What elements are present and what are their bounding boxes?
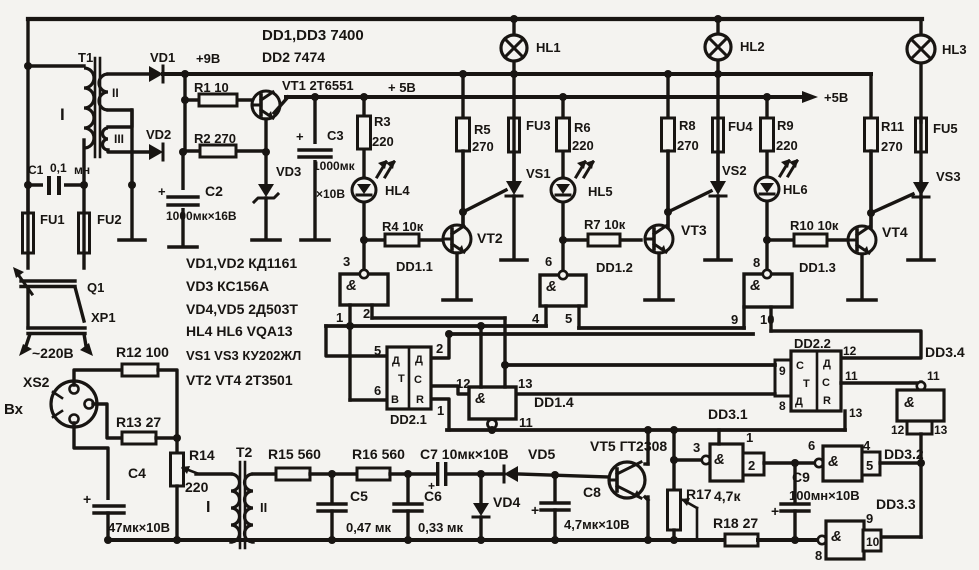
wire DD2.1 pin5 loop <box>326 326 387 358</box>
flip-flop DD2.1 <box>387 347 431 427</box>
wire VT4 emitter <box>860 254 863 299</box>
svg-text:С: С <box>822 377 830 389</box>
resistor R12 100 <box>116 344 169 376</box>
svg-text:I: I <box>60 105 65 124</box>
svg-text:FU1: FU1 <box>40 212 65 227</box>
wire DD3.4 down rail <box>919 434 922 537</box>
transistor VT4 <box>848 224 908 254</box>
svg-text:C8: C8 <box>583 484 601 500</box>
svg-text:12: 12 <box>891 423 905 437</box>
svg-text:1000мк×16В: 1000мк×16В <box>166 209 237 223</box>
wire bottom common rail <box>108 538 725 542</box>
node junction VT2 collector <box>459 208 467 216</box>
resistor R2 270 <box>185 131 266 157</box>
svg-text:10: 10 <box>866 535 880 549</box>
node junction right rail DD3.2 out <box>917 459 925 467</box>
svg-text:+: + <box>158 184 166 199</box>
resistor R10 10k <box>767 218 846 246</box>
transistor VT3 <box>645 222 707 253</box>
wire line D <box>505 363 775 367</box>
svg-text:8: 8 <box>815 548 822 563</box>
svg-text:+: + <box>531 502 539 518</box>
wire left mains rail <box>26 19 29 212</box>
transformer T1 core <box>95 58 100 157</box>
node junction rail VT5 <box>644 536 652 544</box>
node junction +9V / R1R2 riser <box>181 70 189 78</box>
flip-flop DD2.2 <box>775 336 841 413</box>
svg-text:8: 8 <box>753 255 760 270</box>
svg-text:270: 270 <box>472 139 494 154</box>
svg-text:HL4 HL6 VQА13: HL4 HL6 VQА13 <box>186 323 293 339</box>
diode VD1 <box>149 50 220 82</box>
wire T2 primary top <box>0 0 1 1</box>
wire DD3.2 out <box>880 461 921 464</box>
svg-text:&: & <box>475 390 486 407</box>
svg-text:FU4: FU4 <box>728 119 753 134</box>
wire DD1.3 pin10 stub <box>760 307 774 331</box>
op-gate DD3.3 <box>815 496 916 563</box>
wire VT5 emitter <box>645 497 648 540</box>
svg-text:+9В: +9В <box>196 51 220 66</box>
svg-text:6: 6 <box>545 254 552 269</box>
svg-text:&: & <box>831 528 842 545</box>
svg-text:R1 10: R1 10 <box>194 80 229 95</box>
node junction VT1 collector / R2 / VD3 <box>262 148 270 156</box>
node junction lineF DD1.4 out <box>488 426 496 434</box>
svg-text:VT2 VT4 2Т3501: VT2 VT4 2Т3501 <box>186 372 293 388</box>
label ~220V <box>32 345 74 361</box>
wire line B2 <box>579 326 744 330</box>
svg-text:270: 270 <box>677 138 699 153</box>
svg-text:Т: Т <box>803 378 810 390</box>
transformer T1 primary winding I <box>60 50 94 186</box>
svg-text:6: 6 <box>374 383 381 398</box>
svg-text:220: 220 <box>372 134 394 149</box>
wire DD1.3 pin10 loop <box>771 331 921 358</box>
wire VD5 to VT5 <box>518 474 609 477</box>
wire +9V bus <box>163 72 871 76</box>
node junction center tap / C1 line <box>128 181 136 189</box>
transformer T2 core <box>236 444 253 548</box>
svg-text:+: + <box>771 503 779 519</box>
wire R17 tap to DD3.1 <box>674 458 702 461</box>
svg-text:13: 13 <box>849 406 863 420</box>
svg-text:R16 560: R16 560 <box>352 446 405 462</box>
node junction lineB DD1.4 pin12 <box>477 322 485 330</box>
svg-text:&: & <box>546 278 557 295</box>
svg-text:I: I <box>206 499 210 516</box>
resistor R5 270 <box>457 74 494 227</box>
capacitor C8 4.7uF <box>531 475 630 540</box>
svg-text:VT5 ГТ2308: VT5 ГТ2308 <box>590 438 667 454</box>
svg-text:+ 5В: + 5В <box>388 80 416 95</box>
node junction rail R14 <box>173 536 181 544</box>
node junction VD4 <box>477 470 485 478</box>
wire R13 to column <box>156 436 177 439</box>
svg-text:4,7мк×10В: 4,7мк×10В <box>564 517 630 532</box>
node junction left rail / T1 primary <box>24 62 32 70</box>
label Bx <box>4 401 24 418</box>
node junction riser/R1 <box>181 96 189 104</box>
wire T1 II top to VD1 <box>108 72 149 75</box>
svg-text:R5: R5 <box>474 122 491 137</box>
svg-text:HL2: HL2 <box>740 39 765 54</box>
svg-text:HL1: HL1 <box>536 40 561 55</box>
svg-text:III: III <box>114 132 124 146</box>
label IC types <box>262 27 364 65</box>
node junction rail R17 <box>670 536 678 544</box>
ground bar VD3 <box>252 238 280 242</box>
svg-text:0,47 мк: 0,47 мк <box>346 520 392 535</box>
wire C7 to VD5 <box>448 472 504 475</box>
node junction +5V / R9 <box>763 93 771 101</box>
resistor R11 270 <box>865 74 905 227</box>
svg-text:XP1: XP1 <box>91 310 116 325</box>
svg-text:11: 11 <box>519 415 533 430</box>
wire VT1 emitter to 5V bus <box>274 97 288 113</box>
svg-text:R15 560: R15 560 <box>268 446 321 462</box>
resistor R3 220 <box>358 97 394 178</box>
op-gate DD1.1 <box>340 240 433 305</box>
ground bar VS2 <box>705 258 731 262</box>
wire VT1 collector down <box>264 119 267 152</box>
svg-text:T2: T2 <box>236 444 253 460</box>
node junction lineF R17 <box>670 426 678 434</box>
svg-text:VT1 2Т6551: VT1 2Т6551 <box>282 78 354 93</box>
wire line E <box>431 386 775 394</box>
transistor VT2 <box>443 225 503 253</box>
wire T1 center tap <box>108 110 132 239</box>
node junction C1 line / FU2 column <box>80 181 88 189</box>
svg-text:R9: R9 <box>777 118 794 133</box>
wire DD2.1 pin6 link <box>350 383 387 400</box>
wire VT4 collector riser <box>869 151 872 227</box>
svg-text:12: 12 <box>456 376 470 391</box>
svg-text:+: + <box>296 129 304 144</box>
wire XS2 mid pin to R13 <box>93 404 122 438</box>
wire mains pole 1 <box>26 334 30 346</box>
arrow R17 wiper <box>681 498 697 540</box>
capacitor C6 0.33 <box>394 474 464 540</box>
lamp HL1 <box>501 19 561 181</box>
label parts list <box>186 255 301 388</box>
capacitor C2 1000uF <box>158 152 237 246</box>
resistor R14 220 trimmer <box>171 447 215 540</box>
svg-text:II: II <box>112 86 119 100</box>
ground bar VS3 <box>908 258 934 262</box>
svg-text:11: 11 <box>927 369 940 383</box>
svg-text:6: 6 <box>808 438 815 453</box>
fuse FU3 <box>509 118 551 152</box>
svg-text:~220В: ~220В <box>32 345 74 361</box>
svg-text:HL3: HL3 <box>942 42 967 57</box>
svg-text:VD3: VD3 <box>276 164 301 179</box>
svg-text:Д: Д <box>823 358 831 370</box>
svg-text:R14: R14 <box>189 447 215 463</box>
svg-text:1000мк: 1000мк <box>313 159 356 173</box>
ground bar VT4 emitter <box>848 298 876 302</box>
wire line C <box>449 332 753 336</box>
lamp HL3 <box>907 19 967 122</box>
connector XS2 <box>51 381 97 427</box>
svg-text:R3: R3 <box>374 114 391 129</box>
svg-text:Д: Д <box>795 396 803 408</box>
svg-text:VT4: VT4 <box>882 224 908 240</box>
node junction R12/R13 column <box>173 434 181 442</box>
wire T2 I bottom <box>196 474 231 542</box>
node junction +5V / R6 <box>559 93 567 101</box>
transistor VT5 <box>590 438 667 498</box>
svg-text:Т: Т <box>398 373 405 385</box>
led HL4 <box>352 160 410 240</box>
resistor R4 10k <box>364 219 443 246</box>
svg-text:C9: C9 <box>792 469 810 485</box>
node junction R17 gate tap <box>670 456 678 464</box>
diode VD5 <box>504 446 555 482</box>
wire VT2 collector riser <box>461 151 464 226</box>
svg-text:13: 13 <box>518 376 532 391</box>
arrow +5V <box>802 90 848 105</box>
svg-text:9: 9 <box>731 312 738 327</box>
svg-text:FU5: FU5 <box>933 121 958 136</box>
node junction rail VD4 <box>477 536 485 544</box>
svg-text:220: 220 <box>572 138 594 153</box>
node junction +5V / C3 <box>311 93 319 101</box>
svg-text:С: С <box>796 360 804 372</box>
zener diode VD3 <box>254 152 301 239</box>
wire T2 II bottom <box>251 540 254 542</box>
svg-text:T1: T1 <box>78 50 93 65</box>
svg-text:&: & <box>828 453 839 470</box>
ground bar VS1 <box>501 258 527 262</box>
svg-text:VD4: VD4 <box>493 494 520 510</box>
wire VS3 gate <box>871 194 913 213</box>
svg-text:5: 5 <box>374 343 381 358</box>
svg-text:DD1,DD3 7400: DD1,DD3 7400 <box>262 27 364 44</box>
wire T2 II top to R15 <box>253 472 276 475</box>
capacitor C1 0.1 <box>28 161 90 195</box>
wire XS2 top pin to R12 <box>74 370 122 385</box>
svg-text:9: 9 <box>779 364 786 378</box>
wire VS2 gate <box>668 191 711 212</box>
svg-text:VT2: VT2 <box>477 230 503 246</box>
svg-text:VS2: VS2 <box>722 163 747 178</box>
svg-text:DD3.4: DD3.4 <box>925 344 965 360</box>
transformer T2 winding I <box>206 474 240 542</box>
wire DD1.1 pin2 stub <box>363 305 372 321</box>
led HL6 <box>755 159 808 240</box>
transistor VT1 <box>252 78 416 119</box>
svg-text:VD2: VD2 <box>146 127 171 142</box>
node junction +9V / R5 <box>459 70 467 78</box>
wire VT3 collector riser <box>666 151 669 226</box>
transformer T1 secondary winding III <box>103 128 125 150</box>
svg-text:4,7к: 4,7к <box>714 488 741 504</box>
svg-text:13: 13 <box>934 423 948 437</box>
ground bar VT3 emitter <box>645 298 673 302</box>
svg-text:II: II <box>260 500 267 515</box>
svg-text:Q1: Q1 <box>87 280 104 295</box>
svg-text:1: 1 <box>336 310 343 325</box>
resistor R15 560 <box>268 446 321 480</box>
wire DD2.2 pin13 stub <box>845 406 863 430</box>
svg-text:R10 10к: R10 10к <box>790 218 839 233</box>
svg-text:47мк×10В: 47мк×10В <box>108 520 170 535</box>
svg-text:VD1,VD2 КД1161: VD1,VD2 КД1161 <box>186 255 297 271</box>
svg-text:4: 4 <box>532 311 540 326</box>
node junction HL6 / R10 / DD1.3 pin8 <box>763 236 771 244</box>
svg-text:R: R <box>823 395 831 407</box>
svg-text:0,1: 0,1 <box>50 161 67 175</box>
svg-text:DD3.3: DD3.3 <box>876 496 916 512</box>
svg-text:&: & <box>750 277 761 294</box>
wire XS2 bottom pin to C4 <box>74 423 108 505</box>
resistor R8 270 <box>662 74 699 227</box>
node junction lineC DD2.1 pin2 <box>445 330 453 338</box>
svg-text:DD3.1: DD3.1 <box>708 406 748 422</box>
op-gate DD1.3 <box>744 240 836 307</box>
node junction C1 line / left rail <box>24 181 32 189</box>
node junction VD2 out / C2 <box>179 148 187 156</box>
wire DD1.2 pin4 stub <box>532 306 546 326</box>
node junction lineD DD1.4 pin13 <box>501 361 509 369</box>
wire riser to R1 R2 <box>183 74 186 152</box>
svg-text:×10В: ×10В <box>316 187 345 201</box>
wire VT5 collector <box>645 430 648 464</box>
wire R12 to column <box>158 370 177 453</box>
svg-text:2: 2 <box>748 458 755 473</box>
ground bar center tap <box>119 238 145 242</box>
svg-text:DD2 7474: DD2 7474 <box>262 49 325 65</box>
svg-text:R7 10к: R7 10к <box>584 217 626 232</box>
svg-text:C3: C3 <box>327 128 344 143</box>
node junction rail C9 <box>791 536 799 544</box>
svg-text:C5: C5 <box>350 488 368 504</box>
wire DD3.1 out to DD3.2 <box>764 461 816 464</box>
svg-text:DD1.4: DD1.4 <box>534 394 574 410</box>
svg-text:&: & <box>346 277 357 294</box>
capacitor C5 0.47 <box>318 474 392 540</box>
arrow R14 wiper <box>181 466 199 474</box>
svg-text:+: + <box>83 491 91 507</box>
resistor R17 4.7k trimmer <box>668 430 742 540</box>
svg-text:270: 270 <box>881 139 903 154</box>
node junction C5 <box>328 470 336 478</box>
svg-text:R17: R17 <box>686 486 712 502</box>
svg-text:2: 2 <box>436 341 443 356</box>
svg-text:12: 12 <box>843 344 857 358</box>
wire VS1 gate <box>463 190 506 212</box>
capacitor C3 1000uF <box>296 97 356 238</box>
svg-text:VD1: VD1 <box>150 50 175 65</box>
label XS2 <box>23 374 50 390</box>
wire R16 to C7 <box>390 472 436 475</box>
op-gate DD3.4 <box>891 369 948 437</box>
wire DD1.3 pin9 stub <box>731 307 744 328</box>
fuse FU4 <box>713 118 754 152</box>
svg-text:3: 3 <box>693 440 700 455</box>
svg-text:11: 11 <box>845 369 858 383</box>
svg-text:С: С <box>414 374 422 386</box>
svg-text:9: 9 <box>866 511 873 526</box>
resistor R9 220 <box>761 97 798 178</box>
ground bar C3 <box>301 238 329 242</box>
svg-text:Д: Д <box>392 355 400 367</box>
wire line B <box>326 324 546 328</box>
ground bar VT2 emitter <box>443 298 471 302</box>
svg-text:DD1.2: DD1.2 <box>596 260 633 275</box>
svg-text:C4: C4 <box>128 465 146 481</box>
node junction VT3 collector <box>664 208 672 216</box>
svg-text:Вх: Вх <box>4 401 24 418</box>
capacitor C7 10uF <box>420 446 509 493</box>
fuse FU1 <box>23 185 65 268</box>
wire mains pole 2 <box>84 334 86 346</box>
node junction HL2 column / +9V <box>714 70 722 78</box>
svg-text:+: + <box>428 479 435 493</box>
svg-text:R11: R11 <box>881 119 904 134</box>
svg-text:C7 10мк×10В: C7 10мк×10В <box>420 446 509 462</box>
diode VD4 <box>473 474 520 540</box>
label DD3.4 text <box>925 344 965 360</box>
svg-text:HL6: HL6 <box>783 182 808 197</box>
diode VD2 <box>146 127 171 160</box>
svg-text:0,33 мк: 0,33 мк <box>418 520 464 535</box>
wire +5V bus <box>286 95 806 99</box>
svg-text:10: 10 <box>760 312 774 327</box>
svg-text:C2: C2 <box>205 183 223 199</box>
ground bar C2 <box>169 245 197 249</box>
svg-text:HL4: HL4 <box>385 183 410 198</box>
node junction lineB pin1 <box>346 322 354 330</box>
node junction top bus / HL2 <box>714 15 722 23</box>
node junction C6 <box>404 470 412 478</box>
svg-text:+5В: +5В <box>824 90 848 105</box>
node junction HL4 / R4 / DD1.1 pin3 <box>360 236 368 244</box>
resistor R13 27 <box>116 414 161 444</box>
wire DD2.1 pin2 riser <box>431 334 449 358</box>
svg-text:VD5: VD5 <box>528 446 555 462</box>
svg-text:VS1 VS3 КУ202ЖЛ: VS1 VS3 КУ202ЖЛ <box>186 348 301 363</box>
wire DD3.3 out link <box>881 535 921 538</box>
svg-text:VD3 КС156А: VD3 КС156А <box>186 278 269 294</box>
svg-text:DD1.3: DD1.3 <box>799 260 836 275</box>
wire line A DD1.1 pin2 net <box>372 318 505 365</box>
svg-text:DD1.1: DD1.1 <box>396 259 433 274</box>
fuse FU2 <box>79 185 122 268</box>
arrow mains 2 <box>80 343 93 356</box>
arrow plug lever <box>13 267 32 294</box>
svg-text:2: 2 <box>363 306 370 321</box>
svg-text:В: В <box>391 394 399 406</box>
wire DD2.2 pin11 to DD3.4 <box>841 369 921 383</box>
wire line F output bus <box>447 428 845 432</box>
op-gate DD1.4 <box>456 326 574 430</box>
resistor R16 560 <box>352 446 405 480</box>
svg-text:DD3.2: DD3.2 <box>884 446 924 462</box>
node junction +5V / R3 <box>360 93 368 101</box>
svg-text:1: 1 <box>746 430 753 445</box>
op-gate DD3.2 <box>808 438 924 481</box>
svg-text:R13 27: R13 27 <box>116 414 161 430</box>
resistor R1 10 <box>185 80 252 106</box>
wire VT3 emitter <box>657 253 660 299</box>
svg-text:&: & <box>714 451 725 468</box>
lamp HL2 <box>705 19 765 181</box>
svg-text:R2 270: R2 270 <box>194 131 236 146</box>
wire T1 III bottom to VD2 <box>108 150 149 152</box>
wire R15 to R16 <box>310 472 357 475</box>
